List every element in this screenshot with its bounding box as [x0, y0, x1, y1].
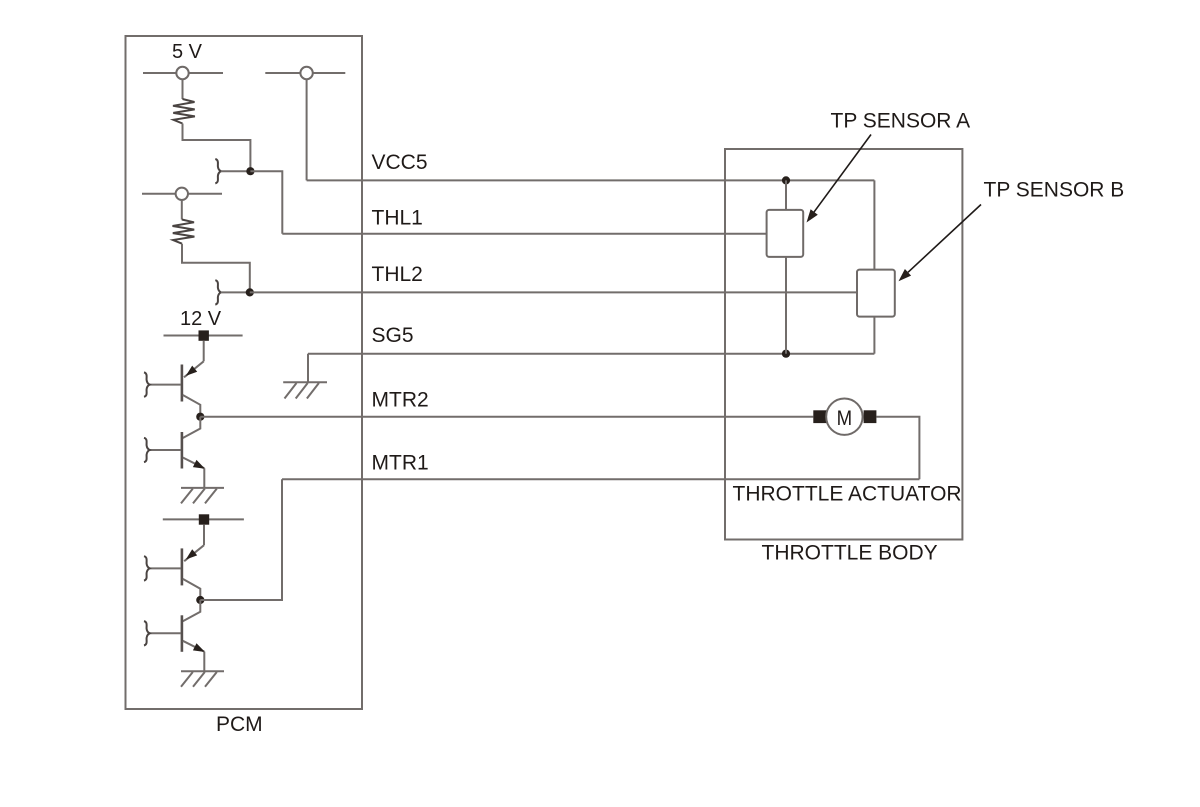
connector brace Q4 base: [144, 621, 150, 645]
5V terminal 2: [265, 67, 345, 79]
wire: [183, 124, 251, 172]
wire: [876, 417, 919, 480]
transistor Q4: [150, 600, 205, 652]
svg-text:TP SENSOR B: TP SENSOR B: [984, 179, 1125, 202]
wire: [200, 479, 282, 600]
wire: [307, 354, 309, 382]
wire: [203, 468, 205, 488]
THROTTLE BODY box: [725, 149, 962, 540]
wire: [221, 170, 251, 172]
wire: [182, 244, 250, 293]
wire: [203, 341, 205, 362]
wire: [873, 317, 875, 354]
TP sensor A: [767, 210, 804, 257]
ground Q2: [181, 488, 224, 504]
ground SG5: [283, 382, 327, 398]
TP SENSOR A arrow: [807, 135, 872, 223]
MTR1 wire: [282, 478, 919, 480]
12V supply bar 2: [163, 514, 244, 524]
connector brace Q3 base: [144, 556, 150, 580]
resistor R1: [173, 99, 195, 124]
wire: [306, 79, 308, 180]
THL1 wire: [282, 233, 766, 235]
12V supply bar: [164, 330, 243, 340]
THL2 wire: [250, 291, 857, 293]
node junction sensor A supply: [782, 176, 790, 184]
transistor Q3: [150, 545, 204, 600]
ground Q4: [181, 671, 224, 687]
node junction VCC5 divider: [246, 167, 254, 175]
svg-text:SG5: SG5: [372, 324, 414, 347]
MTR2 wire: [200, 416, 813, 418]
wire: [785, 180, 787, 210]
svg-text:VCC5: VCC5: [372, 151, 428, 174]
svg-text:THROTTLE ACTUATOR: THROTTLE ACTUATOR: [733, 483, 962, 506]
resistor R2: [173, 220, 195, 244]
wire: [182, 79, 184, 99]
connector brace Q2 base: [144, 438, 150, 462]
wire sensor B top: [873, 180, 875, 269]
svg-text:12 V: 12 V: [180, 308, 222, 330]
TP SENSOR B arrow: [899, 205, 982, 282]
node junction THL2: [246, 288, 254, 296]
motor M: [813, 399, 876, 435]
connector brace: [215, 159, 221, 183]
transistor Q2: [150, 417, 205, 469]
svg-text:5 V: 5 V: [172, 41, 203, 63]
svg-text:MTR2: MTR2: [372, 389, 429, 412]
node junction MTR2: [196, 413, 204, 421]
second terminal: [142, 188, 222, 200]
SG5 wire: [308, 353, 874, 355]
node junction SG5 sensor A: [782, 350, 790, 358]
svg-text:PCM: PCM: [216, 713, 263, 736]
TP sensor B: [857, 270, 895, 317]
wire: [181, 200, 183, 220]
connector brace: [215, 280, 221, 304]
svg-text:THL1: THL1: [372, 207, 423, 230]
wire: [785, 257, 787, 354]
svg-text:TP SENSOR A: TP SENSOR A: [831, 110, 971, 133]
connector brace Q1 base: [144, 372, 150, 396]
wire: [221, 291, 250, 293]
svg-text:THROTTLE BODY: THROTTLE BODY: [762, 542, 938, 565]
wire: [203, 525, 205, 546]
svg-text:MTR1: MTR1: [372, 452, 429, 475]
wire: [250, 171, 282, 234]
PCM box: [126, 36, 363, 709]
wire: [203, 652, 205, 672]
transistor Q1: [150, 361, 204, 416]
5V terminal: [143, 67, 223, 79]
node junction MTR1: [196, 596, 204, 604]
svg-text:THL2: THL2: [372, 263, 423, 286]
svg-text:M: M: [837, 407, 853, 430]
VCC5 wire: [307, 179, 875, 181]
